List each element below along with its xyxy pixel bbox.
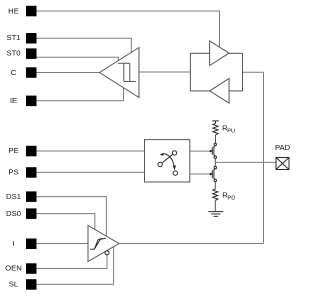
pin DS0: [6, 208, 36, 219]
svg-text:SL: SL: [9, 280, 19, 289]
wire R_PD to ground: [214, 201, 216, 212]
svg-text:DS1: DS1: [6, 192, 21, 201]
svg-text:PAD: PAD: [275, 143, 291, 152]
resistor R_PD: [213, 189, 218, 201]
output driver triangle (U2 top): [210, 41, 230, 66]
switch box U3: [145, 140, 190, 182]
M2 drain terminal: [214, 166, 216, 168]
M1 drain terminal: [214, 143, 216, 145]
wire U1 output to U2 (pad receive path): [139, 71, 190, 73]
pre-driver U4: [88, 226, 119, 262]
wire ST1 net: [37, 38, 132, 52]
wire DS1 net: [37, 197, 107, 236]
wire PS net: [37, 171, 145, 173]
switch blade: [162, 154, 173, 163]
svg-text:HE: HE: [8, 6, 19, 15]
gate wire lower (switch to M2): [190, 173, 213, 175]
svg-text:C: C: [11, 68, 17, 77]
transistor M2: [212, 169, 215, 180]
VDD rail: [212, 121, 219, 124]
svg-text:PE: PE: [8, 146, 18, 155]
pin IE: [10, 96, 37, 107]
svg-text:PS: PS: [8, 168, 18, 177]
wire HE net: [37, 11, 220, 47]
wire pre-driver output: [119, 243, 264, 245]
resistor R_PU: [213, 123, 218, 134]
wire U2 output to pad net: [243, 71, 264, 73]
switch contact A: [158, 162, 162, 166]
wire ST0 net: [37, 57, 119, 60]
PAD symbol: [276, 158, 289, 170]
wire SL net: [37, 247, 114, 285]
input buffer U1: [100, 48, 140, 98]
pin C: [11, 67, 37, 78]
hysteresis symbol: [118, 63, 136, 81]
switch toggle arrow: [161, 154, 174, 167]
switch contact C: [173, 171, 177, 175]
pin ST1: [6, 33, 36, 44]
svg-text:OEN: OEN: [5, 264, 22, 273]
wire IE net: [37, 88, 124, 101]
output driver block U2: [190, 53, 242, 91]
pin ST0: [6, 48, 36, 59]
wire M1 to pad net: [214, 159, 216, 167]
wire PAD horizontal net: [215, 161, 276, 163]
svg-text:IE: IE: [10, 96, 17, 105]
svg-text:PU: PU: [227, 128, 235, 134]
ground: [208, 212, 223, 217]
wire M2 to R_PD: [214, 182, 216, 189]
transistor M1: [212, 146, 215, 157]
pin SL: [9, 279, 37, 290]
input path triangle (U2 bottom): [210, 78, 230, 103]
wire OEN net: [37, 255, 108, 269]
pin HE: [8, 6, 36, 16]
pin PS: [8, 167, 36, 178]
pin I: [12, 239, 36, 250]
gate wire upper (switch to M1): [190, 150, 213, 152]
svg-text:DS0: DS0: [6, 209, 21, 218]
slew rate symbol: [90, 238, 106, 249]
wire pad vertical net: [263, 72, 265, 243]
svg-text:PD: PD: [227, 196, 235, 202]
svg-text:ST1: ST1: [6, 33, 20, 42]
pin PE: [8, 146, 36, 157]
wire R_PU to M1: [215, 135, 217, 143]
wire I net: [37, 243, 89, 245]
wire PE net: [37, 150, 145, 152]
svg-text:I: I: [12, 239, 14, 248]
pin DS1: [6, 191, 36, 202]
M1 source terminal: [214, 156, 216, 158]
enable bubble: [105, 251, 109, 255]
M2 source terminal: [214, 179, 216, 181]
switch contact B: [172, 151, 176, 155]
wire DS0 net: [37, 214, 95, 230]
wire C net: [37, 72, 100, 74]
pin OEN: [5, 263, 36, 274]
svg-text:ST0: ST0: [6, 48, 20, 57]
